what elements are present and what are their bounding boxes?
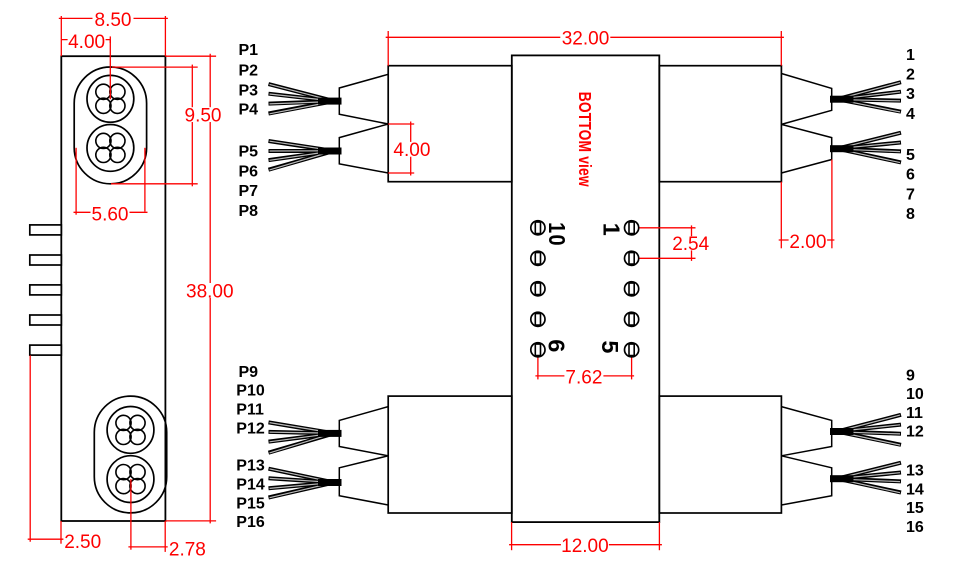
svg-text:P11: P11	[236, 402, 264, 419]
fiber group 9-12	[830, 415, 901, 445]
svg-text:9.50: 9.50	[185, 106, 222, 127]
pin 5	[625, 343, 639, 357]
pin 9	[531, 251, 545, 265]
fiber group P13-P16	[269, 469, 342, 498]
bottom fiber port stadium	[94, 396, 166, 513]
bottom port ferrule circle B	[107, 456, 154, 503]
fiber group P9-P12	[269, 422, 342, 453]
dim 2.54 pin leader lines	[632, 227, 696, 229]
svg-text:2.78: 2.78	[169, 540, 206, 561]
dim 32.00 line	[386, 36, 784, 38]
dim text 4.00	[68, 32, 106, 53]
fiber group P1-P4	[269, 84, 342, 114]
pin 8	[531, 282, 545, 296]
dim text 5.60	[91, 205, 130, 226]
dim text 2.00	[789, 232, 828, 253]
svg-text:P4: P4	[239, 102, 259, 119]
svg-text:P16: P16	[236, 514, 265, 531]
svg-text:P3: P3	[239, 82, 259, 99]
dim 4.00 line	[61, 39, 110, 41]
svg-text:4: 4	[906, 106, 915, 123]
svg-text:8.50: 8.50	[95, 10, 132, 31]
top port ferrule A fibers	[96, 84, 111, 99]
dim 2.54 line	[691, 225, 693, 261]
svg-text:2: 2	[906, 67, 915, 84]
side pin tab 5	[30, 345, 62, 355]
dim 38.00 extension lines	[165, 55, 216, 57]
svg-text:4.00: 4.00	[68, 32, 105, 53]
pin 6	[531, 343, 545, 357]
svg-text:1: 1	[599, 223, 625, 238]
fiber group 13-16	[830, 463, 901, 493]
bottom port ferrule A fibers	[116, 415, 131, 430]
svg-text:12: 12	[906, 424, 924, 441]
side pin tab 3	[30, 285, 62, 295]
lower-right wing block	[659, 396, 781, 513]
dim 2.50 extension lines	[29, 355, 31, 541]
lower-left wing block	[388, 396, 512, 513]
dim text 38.00	[186, 281, 234, 302]
lower-left boot 2	[339, 456, 388, 505]
dim text 9.50	[184, 106, 223, 127]
fiber group 5-8	[830, 133, 901, 163]
dim 2.00 right extension	[831, 160, 833, 249]
svg-text:6: 6	[906, 167, 915, 184]
top port ferrule circle A	[87, 75, 134, 122]
dim 7.62 extension lines	[537, 350, 539, 380]
dim text 7.62	[564, 368, 603, 389]
svg-text:2.50: 2.50	[64, 532, 101, 553]
central package body	[512, 55, 660, 522]
svg-text:BOTTOM view: BOTTOM view	[575, 92, 594, 188]
svg-text:32.00: 32.00	[562, 29, 610, 50]
bottom port ferrule B fibers	[116, 465, 131, 480]
dim 4.00 line	[410, 122, 412, 176]
svg-text:12.00: 12.00	[561, 536, 609, 557]
dim text 8.50	[93, 10, 134, 31]
dim 9.50 line	[191, 65, 193, 187]
dim 12.00 extension lines	[511, 522, 513, 550]
lower-right boot 1	[781, 407, 831, 456]
dim 38.00 line	[209, 54, 211, 524]
dim 32.00 extension right	[780, 31, 782, 66]
svg-text:1: 1	[906, 47, 915, 64]
dim 7.62 line	[535, 375, 634, 377]
svg-text:P13: P13	[236, 458, 265, 475]
svg-text:9: 9	[906, 367, 915, 384]
svg-text:4.00: 4.00	[393, 140, 430, 161]
pin 2	[625, 251, 639, 265]
upper-right boot 1	[781, 74, 831, 125]
upper-right wing block	[659, 66, 781, 182]
dim 9.50 extension lines	[112, 66, 198, 68]
dim 2.78 extension lines	[130, 479, 132, 550]
side view body rectangle	[61, 56, 165, 521]
bottom port ferrule circle A	[107, 407, 154, 454]
svg-text:7: 7	[906, 186, 915, 203]
svg-text:5.60: 5.60	[92, 205, 129, 226]
svg-text:P1: P1	[239, 42, 259, 59]
fiber group P5-P8	[269, 141, 342, 170]
dim 8.50 extension lines	[60, 16, 62, 56]
dim text 32.00	[560, 29, 610, 50]
svg-text:P10: P10	[236, 383, 265, 400]
dim text 12.00	[561, 536, 609, 557]
pin 3	[625, 282, 639, 296]
svg-text:P12: P12	[236, 420, 265, 437]
svg-text:5: 5	[906, 147, 915, 164]
svg-text:P15: P15	[236, 495, 265, 512]
top fiber port stadium	[74, 67, 146, 184]
svg-text:10: 10	[544, 222, 571, 247]
dim 5.60 extension lines	[75, 148, 77, 215]
svg-text:7.62: 7.62	[565, 368, 602, 389]
svg-text:15: 15	[906, 500, 924, 517]
top port ferrule B fibers	[96, 133, 111, 148]
dim 5.60 line	[74, 211, 148, 213]
svg-text:10: 10	[906, 386, 924, 403]
svg-text:11: 11	[906, 405, 923, 422]
svg-text:P5: P5	[239, 144, 259, 161]
dim 2.78 line	[128, 546, 167, 548]
dim 32.00 extension left	[387, 31, 389, 66]
svg-text:P7: P7	[239, 183, 259, 200]
dim 2.50 line	[28, 538, 64, 540]
upper-left boot 1	[339, 74, 388, 124]
dim text 2.54	[672, 234, 711, 255]
side pin tab 1	[30, 225, 62, 235]
svg-text:8: 8	[906, 206, 915, 223]
fiber group 1-4	[830, 82, 901, 112]
svg-text:3: 3	[906, 86, 915, 103]
dim 2.00 left extension	[780, 182, 782, 249]
pin 1	[625, 221, 639, 235]
side pin tab 2	[30, 255, 62, 265]
svg-text:2.00: 2.00	[789, 232, 826, 253]
dim text 4.00 (bottom view)	[393, 140, 431, 161]
svg-text:6: 6	[543, 339, 569, 354]
side pin tab 4	[30, 315, 62, 325]
svg-text:38.00: 38.00	[186, 281, 234, 302]
svg-text:P2: P2	[239, 63, 259, 80]
svg-text:5: 5	[597, 340, 623, 355]
upper-right boot 2	[781, 124, 831, 173]
top port ferrule circle B	[87, 124, 134, 171]
dim 12.00 line	[509, 544, 662, 546]
pin 7	[531, 312, 545, 326]
dim 8.50 line	[59, 17, 168, 19]
lower-left boot 1	[339, 407, 388, 456]
svg-text:2.54: 2.54	[672, 234, 709, 255]
upper-left wing block	[388, 66, 512, 182]
svg-text:P14: P14	[236, 477, 265, 494]
svg-text:14: 14	[906, 481, 924, 498]
svg-text:P9: P9	[239, 364, 259, 381]
centerline to top ferrule center	[109, 40, 111, 100]
svg-text:16: 16	[906, 519, 924, 536]
svg-text:P6: P6	[239, 163, 259, 180]
svg-text:P8: P8	[239, 203, 259, 220]
dim 4.00 extension lines	[388, 123, 414, 125]
pin 4	[625, 312, 639, 326]
dim 4.00 end tick	[109, 36, 111, 43]
pin 10	[531, 221, 545, 235]
lower-right boot 2	[781, 456, 831, 505]
upper-left boot 2	[339, 124, 388, 173]
dim 2.00 line	[779, 239, 835, 241]
svg-text:13: 13	[906, 463, 924, 480]
